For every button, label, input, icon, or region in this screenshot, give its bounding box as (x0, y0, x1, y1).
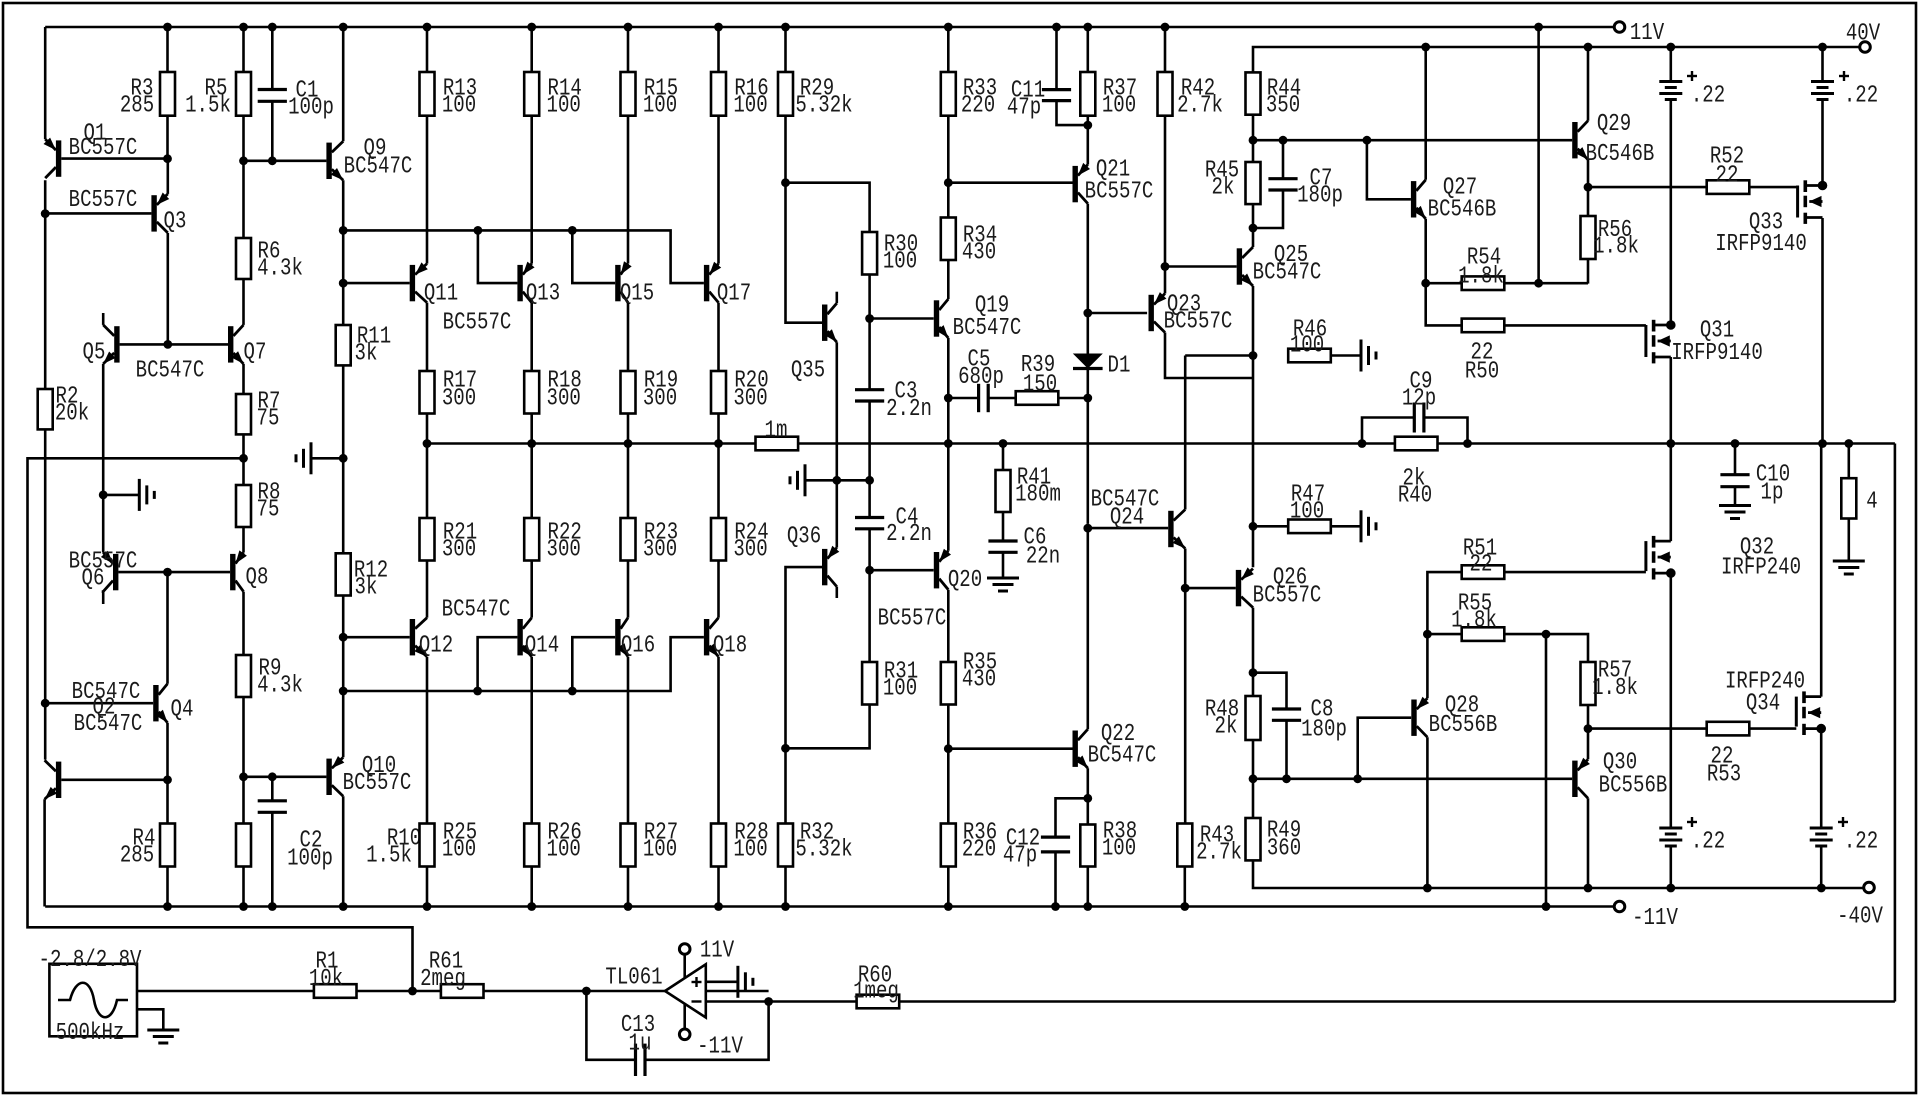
svg-text:2.2n: 2.2n (886, 521, 932, 548)
svg-text:2.2n: 2.2n (886, 396, 932, 423)
resistor R37 (1080, 23, 1137, 165)
wire Q32 source to battery (1670, 573, 1673, 828)
svg-text:Q5: Q5 (83, 340, 106, 367)
svg-text:2.7k: 2.7k (1196, 840, 1242, 867)
node Q24 base junction (1083, 524, 1092, 533)
capacitor C11 (1007, 23, 1088, 126)
wire Q35 base riser (786, 183, 823, 323)
svg-text:Q12: Q12 (419, 633, 453, 660)
ground R46 (1361, 340, 1376, 372)
wire -11V bottom bus (45, 905, 1614, 908)
resistor R56 (1581, 216, 1639, 284)
node op-amp output junction (582, 987, 591, 996)
wire feedback left riser (28, 458, 413, 991)
wire R57 to Q30 emitter (1584, 705, 1593, 759)
ground source (137, 1009, 179, 1043)
wire Q32 drain to bus (1670, 444, 1673, 542)
transistor Q21 (1073, 157, 1154, 206)
wire Q26 base (1185, 587, 1236, 590)
svg-text:Q7: Q7 (244, 340, 267, 367)
wire Q12 base (343, 636, 410, 639)
wire C4 to R31 (865, 529, 874, 662)
wire Q27 emitter to R54 (1421, 219, 1430, 288)
svg-text:Q15: Q15 (620, 281, 654, 308)
resistor 4 ohm load (1841, 439, 1877, 561)
wire Q11 emitter (426, 116, 429, 264)
wire R9 to R10 junction (239, 697, 248, 824)
svg-text:BC557C: BC557C (878, 606, 947, 633)
wire +11V top bus (45, 26, 1614, 29)
wire R29 junction to R30 (786, 183, 870, 232)
svg-text:1m: 1m (765, 418, 788, 445)
mosfet Q31 IRFP9140 (1646, 318, 1763, 368)
svg-text:Q24: Q24 (1110, 505, 1144, 532)
transistor Q8 (230, 550, 268, 591)
wire Q35 collector stub (835, 292, 838, 304)
svg-text:47p: 47p (1003, 843, 1037, 870)
wire D1 to R39 node (1083, 369, 1092, 524)
svg-text:R40: R40 (1398, 483, 1432, 510)
wire Q17 collector (717, 303, 720, 371)
wire R48 to R49 (1249, 740, 1258, 818)
resistor R43 (1177, 823, 1242, 911)
svg-text:22: 22 (1470, 552, 1493, 579)
svg-text:Q14: Q14 (525, 633, 559, 660)
resistor R60 (853, 963, 899, 1009)
svg-text:75: 75 (257, 497, 280, 524)
wire Q31 drain to bus (1666, 357, 1675, 448)
wire R55 to -11V (1542, 634, 1551, 911)
capacitor C12 (1003, 826, 1070, 911)
transistor Q35 (791, 303, 837, 384)
transistor Q12 (410, 618, 453, 660)
svg-text:R53: R53 (1707, 762, 1741, 789)
battery .22 bottom left (1659, 817, 1725, 892)
svg-text:BC557C: BC557C (69, 187, 138, 214)
transistor Q20 (878, 549, 982, 633)
transistor Q29 (1572, 111, 1654, 168)
transistor Q18 (704, 618, 747, 660)
svg-text:180p: 180p (1297, 183, 1343, 210)
svg-text:100: 100 (1290, 333, 1324, 360)
resistor R40 on bus (1395, 437, 1438, 510)
capacitor C9 with R40 loop (1358, 369, 1472, 448)
resistor R50 (1462, 319, 1646, 386)
wire C8 branch top (1253, 673, 1287, 709)
resistor R9 (236, 655, 303, 700)
resistor R10 (236, 824, 421, 870)
resistor R33 (941, 23, 997, 218)
wire Q16 collector (627, 561, 630, 618)
source box -2.8/2.8V 500kHz (39, 947, 142, 1047)
resistor R17 (420, 368, 478, 414)
wire R20 to bus (714, 414, 723, 519)
resistor R31 (862, 659, 918, 705)
resistor R48 (1205, 696, 1261, 741)
svg-text:Q4: Q4 (171, 697, 194, 724)
wire Q34 source to battery (1820, 729, 1823, 828)
resistor R20 (711, 368, 769, 414)
transistor Q25 (1237, 242, 1322, 287)
svg-text:20k: 20k (55, 401, 89, 428)
wire Q20 collector to R35 (947, 590, 950, 662)
wire R12 to Q10 emitter (339, 596, 348, 758)
transistor Q23 (1149, 292, 1233, 336)
terminal -11V op-amp (679, 1004, 743, 1061)
wire Q21 base (948, 181, 1072, 184)
wire Q34 drain to bus (1820, 444, 1823, 697)
svg-text:680p: 680p (958, 364, 1004, 391)
svg-text:Q34: Q34 (1746, 691, 1780, 718)
node Q3 base junction (41, 209, 50, 218)
wire Q5 emitter down (102, 364, 105, 553)
svg-text:BC556B: BC556B (1429, 712, 1498, 739)
resistor R47 (1253, 482, 1361, 534)
wire R18 to bus (527, 414, 536, 519)
wire Q9 emitter chain (339, 180, 348, 325)
wire Q7 emitter to R7 (242, 364, 245, 394)
svg-text:100p: 100p (287, 846, 333, 873)
resistor R26 (524, 820, 582, 911)
transistor Q5 (83, 325, 205, 385)
node R3 bottom (163, 23, 172, 164)
resistor R21 (420, 518, 478, 564)
battery .22 top right (1811, 43, 1878, 186)
wire Q7 collector from R6 (0, 0, 1, 1)
ground op-amp plus input (706, 966, 753, 998)
svg-text:100: 100 (643, 837, 677, 864)
svg-text:220: 220 (961, 93, 995, 120)
transistor Q3 (69, 187, 187, 236)
resistor R1 (309, 949, 357, 998)
wire Q8 collector to R9 (242, 592, 245, 655)
wire R4 to bottom bus (163, 867, 172, 911)
svg-text:-40V: -40V (1837, 904, 1883, 931)
battery .22 bottom right (1810, 817, 1878, 892)
resistor R51 (1427, 536, 1646, 635)
resistor R12 (336, 553, 388, 601)
svg-text:Q36: Q36 (787, 524, 821, 551)
wire Q13 collector (530, 303, 533, 371)
svg-text:1meg: 1meg (853, 979, 899, 1006)
wire Q12 emitter (426, 657, 429, 824)
node Q4 base junction (41, 699, 50, 708)
wire Q5 collector stub (102, 313, 105, 325)
svg-text:BC556B: BC556B (1599, 773, 1668, 800)
mosfet Q34 IRFP240 (1725, 669, 1826, 736)
svg-text:Q17: Q17 (717, 281, 751, 308)
wire Q4 collector to Q6/Q8 base (163, 568, 172, 684)
wire Q27 collector to rail (1421, 43, 1430, 180)
svg-text:100: 100 (883, 676, 917, 703)
svg-text:100: 100 (1102, 836, 1136, 863)
resistor R34 (941, 218, 997, 300)
resistor R5 (185, 23, 251, 161)
resistor R25 (420, 820, 478, 911)
svg-text:2.7k: 2.7k (1177, 93, 1223, 120)
wire Q1 base to R3 (61, 157, 167, 160)
wire Q9 collector to top bus (339, 23, 348, 142)
svg-text:IRFP240: IRFP240 (1721, 555, 1801, 582)
svg-text:BC547C: BC547C (442, 597, 511, 624)
wire R10 to bottom bus (239, 867, 248, 911)
transistor Q16 (615, 618, 655, 660)
wire Q13 emitter (530, 116, 533, 264)
svg-text:430: 430 (962, 667, 996, 694)
ground Q5/Q6 emitters (139, 479, 154, 511)
wire -40V rail (1253, 860, 1864, 888)
svg-text:100: 100 (733, 837, 767, 864)
svg-text:BC546B: BC546B (1428, 197, 1497, 224)
capacitor C6 (988, 512, 1060, 578)
wire Q26 collector to R48 (1249, 608, 1258, 696)
svg-text:300: 300 (643, 537, 677, 564)
svg-text:BC547C: BC547C (344, 154, 413, 181)
wire Q1 emitter to top bus (44, 27, 47, 139)
transistor Q30 (1572, 750, 1667, 800)
svg-text:2k: 2k (1212, 175, 1235, 202)
wire Q12 collector (426, 561, 429, 618)
resistor R13 (420, 23, 478, 120)
wire Q29 base line (1253, 136, 1572, 145)
svg-text:.22: .22 (1691, 829, 1725, 856)
svg-text:-2.8/2.8V: -2.8/2.8V (39, 947, 142, 974)
svg-text:11V: 11V (1630, 20, 1665, 47)
svg-text:300: 300 (547, 537, 581, 564)
wire Q24 emitter to R43 (1181, 549, 1190, 824)
wire R30 to C3 (865, 275, 874, 390)
wire Q15 collector (627, 303, 630, 371)
svg-text:11V: 11V (700, 938, 735, 965)
svg-text:350: 350 (1266, 93, 1300, 120)
resistor R46 (1185, 317, 1361, 363)
terminal 11V (1614, 20, 1664, 47)
capacitor C4 (855, 505, 932, 549)
svg-text:1.8k: 1.8k (1451, 608, 1497, 635)
capacitor C3 (855, 379, 932, 424)
node feedback junction (408, 987, 417, 996)
wire Q14 collector (530, 561, 533, 618)
resistor R29 (778, 23, 853, 183)
wire Q9 base line (239, 156, 326, 165)
resistor R19 (621, 368, 679, 414)
node Q1 collector rail (44, 180, 47, 759)
svg-text:100: 100 (733, 93, 767, 120)
capacitor C10 (1720, 439, 1790, 506)
resistor R7 (236, 389, 280, 435)
mosfet Q33 IRFP9140 (1715, 180, 1827, 258)
resistor R30 (862, 232, 918, 276)
wire Q3 collector to Q5/Q7 base line (167, 233, 170, 344)
wire Q25 emitter to R46 node (1249, 286, 1258, 567)
svg-text:3k: 3k (355, 341, 378, 368)
wire 40V rail (1253, 47, 1860, 72)
transistor Q27 (1411, 175, 1496, 224)
resistor R54 (1458, 245, 1504, 291)
svg-text:100p: 100p (288, 95, 334, 122)
svg-text:4.3k: 4.3k (257, 673, 303, 700)
resistor R44 (1246, 72, 1302, 162)
capacitor C2 (258, 777, 333, 911)
wire Q23 base (1088, 312, 1147, 315)
transistor Q14 (517, 618, 559, 660)
wire C3 to C4 (865, 401, 874, 518)
label BC557C ladder upper (443, 310, 512, 337)
wire Q6-Q8 base line (118, 571, 230, 574)
svg-text:300: 300 (442, 386, 476, 413)
transistor Q11 (410, 262, 458, 307)
svg-text:BC547C: BC547C (1253, 260, 1322, 287)
resistor R24 (711, 518, 769, 564)
terminal 40V (1846, 21, 1881, 53)
resistor R41 (996, 439, 1061, 512)
wire upper base bus (343, 226, 704, 283)
wire Q15 emitter (627, 116, 630, 264)
wire Q30 collector to rail (1584, 798, 1593, 892)
transistor Q36 (787, 524, 839, 587)
wire R50 link (1426, 283, 1462, 325)
wire op-amp minus input (706, 997, 773, 1006)
wire to ground left (103, 494, 139, 497)
terminal +11V op-amp (679, 938, 734, 979)
wire Q6 collector stub (102, 592, 104, 604)
svg-text:Q20: Q20 (948, 567, 982, 594)
svg-text:500kHz: 500kHz (56, 1020, 125, 1047)
wire Q29 collector to rail (1584, 43, 1593, 121)
wire Q4 base (45, 702, 153, 705)
svg-text:5.32k: 5.32k (795, 93, 852, 120)
wire 11V to R54 junction (1534, 23, 1543, 284)
wire R11 to R12 (339, 365, 348, 553)
terminal -40V (1837, 882, 1883, 930)
wire R17 row to bus (423, 414, 432, 519)
wire Q35 emitter to ground line (835, 342, 838, 480)
svg-text:300: 300 (547, 386, 581, 413)
ground load (1833, 561, 1865, 574)
wire Q23 emitter (1164, 267, 1167, 294)
ground C10 (1719, 506, 1751, 519)
svg-text:300: 300 (733, 386, 767, 413)
svg-text:.22: .22 (1691, 83, 1725, 110)
svg-text:300: 300 (643, 386, 677, 413)
svg-text:100: 100 (547, 93, 581, 120)
svg-text:BC547C: BC547C (74, 711, 143, 738)
svg-text:Q3: Q3 (164, 209, 187, 236)
wire Q29 emitter to R56 (1584, 160, 1593, 216)
resistor R3 (120, 27, 175, 159)
wire Q28 collector to rail (1423, 737, 1432, 892)
wire Q22 base (948, 747, 1072, 750)
wire Q20 base (870, 569, 934, 572)
svg-text:IRFP9140: IRFP9140 (1715, 231, 1807, 258)
svg-text:22n: 22n (1026, 544, 1060, 571)
svg-text:220: 220 (962, 837, 996, 864)
svg-text:BC557C: BC557C (1164, 309, 1233, 336)
svg-text:.22: .22 (1844, 829, 1878, 856)
wire Q23 collector link (1165, 333, 1253, 379)
wire Q22 emitter to R38 (1083, 768, 1092, 824)
resistor R11 (336, 324, 391, 368)
transistor Q17 (704, 262, 751, 308)
transistor Q13 (517, 262, 560, 308)
svg-text:1.8k: 1.8k (1592, 675, 1638, 702)
svg-text:360: 360 (1267, 836, 1301, 863)
wire R7 to R8 (239, 434, 248, 485)
svg-text:47p: 47p (1007, 95, 1041, 122)
wire Q14 riser (478, 637, 518, 691)
node R29 bottom junction (781, 178, 790, 187)
resistor R22 (524, 518, 582, 564)
wire Q36 base riser (786, 567, 823, 748)
svg-text:150: 150 (1023, 372, 1057, 399)
svg-text:Q8: Q8 (246, 565, 269, 592)
capacitor C8 (1272, 697, 1347, 779)
wire Q10 base line (244, 772, 327, 781)
transistor Q7 (228, 325, 266, 367)
svg-text:3k: 3k (355, 575, 378, 602)
resistor R4 (120, 824, 175, 870)
svg-text:4.3k: 4.3k (257, 256, 303, 283)
resistor R18 (524, 368, 582, 414)
resistor R42 (1158, 23, 1223, 267)
wire Q21 collector to D1 (1083, 204, 1092, 354)
svg-text:-11V: -11V (697, 1034, 743, 1061)
svg-text:1u: 1u (629, 1031, 652, 1058)
resistor R8 (236, 480, 280, 528)
capacitor C7 (1253, 140, 1343, 228)
resistor R27 (621, 820, 679, 911)
battery .22 top left (1659, 43, 1725, 325)
resistor R55 (1423, 591, 1550, 641)
wire Q16 emitter (627, 657, 630, 824)
svg-text:BC546B: BC546B (1586, 141, 1655, 168)
capacitor C1 (258, 23, 334, 161)
svg-text:R50: R50 (1465, 359, 1499, 386)
wire Q19 base (870, 317, 934, 320)
wire Q2 base to R4 column (61, 778, 167, 781)
inductor 1m on output bus (756, 418, 799, 451)
wire Q14 emitter (530, 657, 533, 824)
wire Q17 emitter (717, 116, 720, 264)
transistor Q26 (1236, 565, 1322, 610)
wire Q11 base (343, 282, 410, 285)
svg-text:2k: 2k (1215, 714, 1238, 741)
wire Q24 collector riser (1184, 356, 1187, 510)
ground C6 (987, 578, 1019, 591)
svg-text:10k: 10k (309, 966, 343, 993)
mosfet Q32 IRFP240 (1646, 535, 1801, 582)
resistor R49 (1246, 818, 1302, 863)
svg-text:Q35: Q35 (791, 358, 825, 385)
transistor Q15 (615, 261, 654, 307)
svg-text:22: 22 (1716, 163, 1739, 190)
svg-text:1.5k: 1.5k (185, 93, 231, 120)
svg-text:300: 300 (733, 537, 767, 564)
svg-text:4: 4 (1866, 489, 1877, 516)
svg-text:-11V: -11V (1632, 905, 1678, 932)
svg-text:BC557C: BC557C (443, 310, 512, 337)
ground middle line (790, 464, 870, 496)
svg-text:Q18: Q18 (713, 633, 747, 660)
transistor Q24 (1091, 487, 1186, 549)
svg-text:BC547C: BC547C (953, 315, 1022, 342)
wire R35 to R36 (944, 705, 953, 824)
svg-text:BC547C: BC547C (136, 358, 205, 385)
wire C12 branch (1056, 798, 1088, 837)
svg-text:180p: 180p (1301, 717, 1347, 744)
wire output bus right drop (1894, 444, 1897, 1002)
resistor R23 (621, 518, 679, 564)
